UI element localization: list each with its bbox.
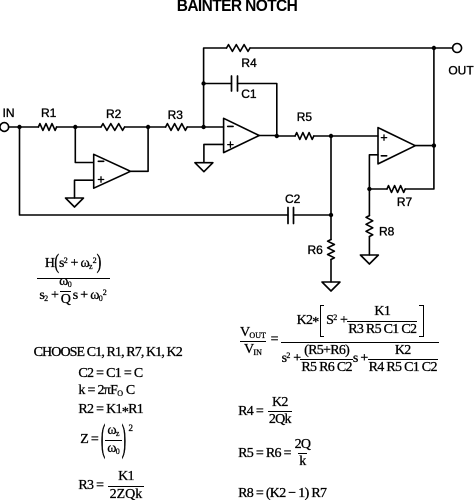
svg-text:R5: R5 — [297, 110, 313, 124]
svg-text:R6: R6 — [307, 243, 323, 257]
svg-text:C1: C1 — [241, 87, 257, 101]
svg-text:OUT: OUT — [448, 64, 474, 78]
svg-text:R1: R1 — [41, 106, 57, 120]
svg-text:R4: R4 — [241, 56, 257, 70]
svg-text:C2: C2 — [285, 192, 301, 206]
svg-text:R2: R2 — [106, 107, 122, 121]
svg-text:R3: R3 — [168, 108, 184, 122]
svg-text:R8: R8 — [379, 225, 395, 239]
svg-text:R7: R7 — [397, 195, 413, 209]
svg-text:IN: IN — [3, 106, 15, 120]
